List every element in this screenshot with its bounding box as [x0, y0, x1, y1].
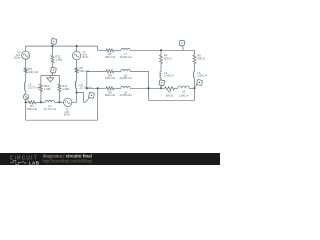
svg-text:600 mΩ: 600 mΩ — [79, 69, 89, 73]
label L8 — [119, 73, 131, 80]
svg-text:600 mΩ: 600 mΩ — [105, 76, 115, 80]
resistor R10 — [39, 83, 42, 92]
label R5 — [166, 90, 174, 98]
label R12 — [55, 55, 62, 62]
resistor R12 — [51, 54, 54, 63]
label R11 — [62, 84, 69, 91]
watermark bar — [0, 153, 220, 165]
resistor R6 — [193, 54, 196, 65]
svg-text:1 MΩ: 1 MΩ — [55, 57, 62, 61]
wire L6 down — [193, 78, 195, 88]
inductor L3 — [24, 82, 25, 91]
voltage source V2 — [63, 98, 71, 106]
node junction V1 top — [76, 45, 78, 47]
svg-text:600 Ω: 600 Ω — [166, 93, 174, 97]
label R3 — [28, 67, 38, 74]
inductor L5 — [178, 86, 190, 88]
wire V1 to R2 — [76, 60, 78, 67]
node junction row3 mid — [147, 87, 149, 89]
wire R1 to L1 — [37, 101, 45, 103]
voltage source V3 — [22, 51, 30, 59]
label R10 — [44, 84, 51, 91]
wire R8 to L8 — [115, 70, 121, 72]
svg-text:http://circuitlab.com/c68hqd: http://circuitlab.com/c68hqd — [43, 159, 94, 164]
wire row1 right — [131, 49, 195, 51]
label R6 — [197, 54, 205, 61]
node junction R4 top — [160, 49, 162, 51]
svg-text:1 MΩ: 1 MΩ — [44, 87, 51, 91]
wire row4 left — [26, 101, 27, 103]
svg-text:600 Ω: 600 Ω — [197, 56, 205, 60]
inductor L4 — [160, 71, 161, 79]
wire step down — [98, 46, 105, 50]
wire top to V1 — [76, 46, 78, 52]
label L3 — [28, 83, 40, 90]
resistor R9 — [105, 87, 115, 90]
wire row1 to R4 — [160, 50, 162, 54]
node flag F6 — [195, 79, 202, 86]
label L2 — [79, 83, 91, 90]
node junction R12 top — [51, 45, 53, 47]
wire ammeter to ground rail — [25, 100, 27, 121]
node flag F2 — [50, 67, 56, 73]
node junction row2 drop — [86, 87, 88, 89]
resistor R3 — [24, 67, 27, 74]
svg-text:600 Ω: 600 Ω — [164, 56, 172, 60]
svg-text:60 Hz: 60 Hz — [82, 57, 89, 59]
wire R6 to L6 — [193, 65, 195, 71]
node junction R10 bottom — [40, 101, 42, 103]
node junction row4 left — [25, 101, 27, 103]
wire down to ground rail — [97, 88, 99, 120]
wire top-left corner — [26, 46, 98, 51]
inductor L7 — [121, 48, 131, 50]
svg-text:60 Hz: 60 Hz — [64, 114, 71, 116]
svg-text:600 mΩ: 600 mΩ — [27, 107, 37, 111]
resistor R5 — [164, 87, 176, 90]
label L1 — [44, 104, 56, 111]
wire top to R12 — [51, 46, 53, 54]
svg-text:60 Hz: 60 Hz — [14, 57, 21, 59]
label L9 — [119, 90, 131, 97]
svg-text:600 mΩ: 600 mΩ — [105, 93, 115, 97]
resistor R4 — [160, 54, 163, 65]
node junction R6 bottom — [193, 87, 195, 89]
ground rail wire — [26, 119, 98, 121]
resistor R7 — [105, 49, 115, 52]
node junction row3 drop — [97, 87, 99, 89]
node flag F5 — [159, 80, 165, 87]
wire R2 to L2 — [76, 74, 78, 81]
label R7 — [105, 52, 115, 59]
wire R10 to row4 — [40, 93, 42, 103]
resistor R11 — [58, 83, 61, 92]
svg-text:12,73 mH: 12,73 mH — [28, 85, 40, 89]
wire V3 to R3 — [25, 59, 27, 67]
node junction R4 bottom — [160, 87, 162, 89]
label R8 — [105, 73, 115, 80]
svg-text:600 mΩ: 600 mΩ — [105, 55, 115, 59]
wire R9 to L9 — [115, 87, 121, 89]
wire bar to R10 — [40, 76, 42, 83]
resistor R1 — [27, 101, 37, 104]
wire R11 to row4 — [58, 93, 60, 103]
svg-text:10,38 mH: 10,38 mH — [119, 93, 131, 97]
ammeter AM1 — [23, 94, 28, 99]
wire R7 to L7 — [115, 49, 121, 51]
node flag F4 — [179, 40, 185, 50]
node junction V2 loop — [76, 92, 78, 94]
svg-text:1,061 H: 1,061 H — [164, 74, 174, 78]
svg-text:LAB: LAB — [29, 160, 40, 165]
label R9 — [105, 90, 115, 97]
wire bar to R11 — [58, 76, 60, 83]
wire L2 down — [76, 89, 78, 93]
wire row1 corner to R6 — [193, 50, 195, 54]
label R1 — [27, 104, 37, 111]
svg-text:10,38 mH: 10,38 mH — [119, 55, 131, 59]
inductor L8 — [121, 69, 131, 71]
resistor R8 — [105, 70, 115, 73]
wire R5 to L5 — [176, 87, 178, 89]
label L6 — [197, 71, 207, 78]
wire V2 riser — [72, 93, 77, 103]
label L5 — [179, 90, 189, 98]
label L7 — [119, 52, 131, 59]
label R2 — [79, 66, 89, 73]
wire T-bar — [41, 75, 60, 77]
wire L3 to ammeter — [25, 91, 27, 94]
label L4 — [164, 71, 174, 78]
label R4 — [164, 54, 172, 61]
ground symbol — [47, 76, 54, 82]
wire L4 down — [160, 78, 162, 88]
svg-text:12,73 mH: 12,73 mH — [79, 86, 91, 90]
node junction R11 bottom — [58, 101, 60, 103]
svg-text:10,38 mH: 10,38 mH — [119, 76, 131, 80]
wire L9 to R5 — [131, 87, 164, 89]
svg-text:1 MΩ: 1 MΩ — [62, 87, 69, 91]
node flag F3 — [85, 92, 94, 102]
svg-text:600 mΩ: 600 mΩ — [28, 70, 38, 74]
wire row3 left — [87, 87, 105, 89]
inductor L2 — [75, 81, 76, 90]
wire jog to flag node — [77, 93, 86, 103]
resistor R2 — [75, 67, 78, 74]
wire row2 right corner — [131, 71, 149, 100]
wire L1 to V2 — [55, 101, 64, 103]
svg-text:1,061 H: 1,061 H — [179, 93, 189, 97]
wire L5 to R6 column — [190, 87, 195, 89]
wire R12 to bar — [51, 64, 53, 76]
node flag F1 — [51, 38, 57, 46]
label V2 — [64, 110, 71, 117]
wire row2 left corner — [87, 71, 105, 88]
wire lower-right rail — [149, 88, 195, 100]
inductor L9 — [121, 86, 131, 88]
inductor L6 — [193, 71, 194, 79]
label V1 — [82, 52, 89, 59]
wire R3 to L3 — [25, 74, 27, 82]
voltage source V1 — [72, 51, 80, 59]
svg-text:1,061 H: 1,061 H — [197, 74, 207, 78]
label V3 — [14, 53, 21, 60]
wire R4 to L4 — [160, 65, 162, 71]
svg-text:12,73 mH: 12,73 mH — [44, 107, 56, 111]
inductor L1 — [45, 100, 55, 102]
